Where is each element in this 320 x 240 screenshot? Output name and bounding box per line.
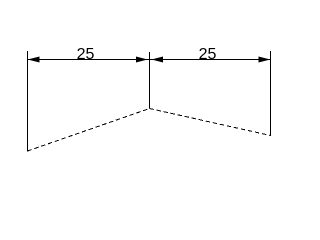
svg-text:25: 25 [77, 46, 95, 63]
svg-text:25: 25 [199, 46, 217, 63]
